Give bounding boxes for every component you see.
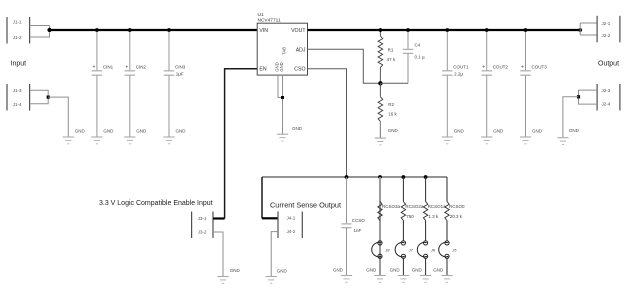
svg-text:GND: GND	[569, 128, 580, 133]
svg-text:Input: Input	[11, 61, 27, 68]
svg-text:GND: GND	[75, 129, 86, 134]
svg-text:R2: R2	[388, 102, 394, 107]
svg-text:GND: GND	[493, 129, 504, 134]
svg-text:CIN3: CIN3	[175, 64, 186, 69]
svg-text:J1-4: J1-4	[13, 102, 22, 107]
svg-text:J1-1: J1-1	[13, 19, 22, 24]
svg-text:GND: GND	[176, 129, 187, 134]
svg-text:RCSO1a: RCSO1a	[428, 204, 447, 209]
svg-text:1µF: 1µF	[176, 72, 184, 77]
svg-text:GND: GND	[333, 267, 344, 272]
svg-text:GND: GND	[279, 62, 284, 71]
svg-text:NCV47711: NCV47711	[258, 17, 281, 23]
svg-text:J1-3: J1-3	[13, 88, 22, 93]
svg-text:GND: GND	[433, 267, 444, 272]
svg-text:+: +	[482, 64, 485, 70]
svg-text:R1: R1	[388, 48, 394, 53]
svg-text:J3-1: J3-1	[198, 216, 207, 221]
svg-text:GND: GND	[230, 268, 241, 273]
svg-text:U1: U1	[258, 12, 264, 18]
svg-text:J6: J6	[430, 248, 436, 253]
svg-text:C4: C4	[415, 42, 421, 47]
svg-text:J4-2: J4-2	[287, 229, 296, 234]
svg-text:CIN1: CIN1	[103, 64, 114, 69]
svg-text:Output: Output	[598, 60, 619, 67]
svg-text:CSO: CSO	[294, 67, 305, 73]
svg-text:CIN2: CIN2	[136, 64, 147, 69]
svg-text:GND: GND	[454, 129, 465, 134]
svg-text:750: 750	[406, 214, 414, 219]
svg-text:+: +	[92, 64, 95, 70]
svg-text:16 k: 16 k	[388, 112, 397, 117]
svg-text:+: +	[125, 64, 128, 70]
svg-text:TAB: TAB	[282, 47, 287, 55]
svg-text:J3-2: J3-2	[198, 229, 207, 234]
svg-text:20.3 k: 20.3 k	[450, 214, 463, 219]
svg-text:+: +	[521, 64, 524, 70]
svg-text:J1-2: J1-2	[13, 35, 22, 40]
svg-text:EN: EN	[259, 67, 266, 73]
svg-text:COUT3: COUT3	[532, 64, 548, 69]
svg-text:COUT1: COUT1	[453, 64, 469, 69]
svg-text:GND: GND	[532, 129, 543, 134]
svg-text:J7: J7	[408, 248, 414, 253]
svg-text:RCSO3a: RCSO3a	[382, 204, 401, 209]
svg-text:GND: GND	[412, 267, 423, 272]
svg-text:J2-3: J2-3	[602, 88, 611, 93]
svg-text:CCSO: CCSO	[352, 218, 366, 223]
svg-text:GND: GND	[388, 128, 399, 133]
svg-text:GND: GND	[277, 268, 288, 273]
svg-text:J8: J8	[384, 248, 390, 253]
svg-text:J5: J5	[451, 248, 457, 253]
svg-text:VIN: VIN	[259, 28, 268, 34]
svg-text:0.1 µ: 0.1 µ	[415, 55, 426, 60]
svg-text:Current Sense Output: Current Sense Output	[270, 200, 341, 209]
svg-text:GND: GND	[366, 267, 377, 272]
svg-text:47 k: 47 k	[387, 57, 396, 62]
svg-text:1.3 k: 1.3 k	[428, 214, 439, 219]
svg-text:GND: GND	[292, 126, 303, 131]
svg-text:RCSO0: RCSO0	[449, 204, 465, 209]
svg-text:J2-1: J2-1	[602, 21, 611, 26]
svg-text:GND: GND	[390, 267, 401, 272]
svg-text:GND: GND	[136, 129, 147, 134]
svg-text:COUT2: COUT2	[493, 64, 509, 69]
svg-text:2.2µ: 2.2µ	[454, 72, 463, 77]
svg-text:3.3 V Logic Compatible Enable: 3.3 V Logic Compatible Enable Input	[99, 200, 213, 207]
svg-text:J4-1: J4-1	[287, 216, 296, 221]
svg-text:ADJ: ADJ	[296, 47, 306, 53]
svg-text:VOUT: VOUT	[291, 28, 306, 34]
svg-text:GND: GND	[103, 129, 114, 134]
svg-text:J2-2: J2-2	[602, 33, 611, 38]
svg-text:RCSO2a: RCSO2a	[405, 204, 424, 209]
svg-text:1nF: 1nF	[354, 228, 362, 233]
svg-text:J2-4: J2-4	[602, 102, 611, 107]
